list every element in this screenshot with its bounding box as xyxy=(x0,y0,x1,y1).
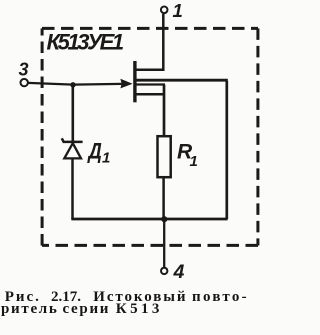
dashed IC boundary xyxy=(42,28,258,245)
wire diode anode down xyxy=(71,158,74,219)
terminal 1 xyxy=(161,7,168,14)
transistor VT1 drain stub xyxy=(136,68,164,71)
wire pin1 to drain xyxy=(136,14,163,70)
wire gate input xyxy=(28,83,122,85)
bottom rail wire xyxy=(71,218,227,221)
diode Д1 triangle xyxy=(64,143,81,158)
wire diode branch xyxy=(72,85,75,142)
transistor VT1 source stub lower xyxy=(136,93,164,96)
transistor VT1 source lead upper xyxy=(136,83,165,85)
terminal 3 xyxy=(21,79,28,86)
resistor R1 body xyxy=(158,136,171,177)
wire R1 to bottom rail xyxy=(162,177,165,219)
wire terminal 4 xyxy=(163,219,165,267)
terminal 4 xyxy=(161,268,167,274)
junction node bottom rail xyxy=(161,216,167,222)
wire substrate to bottom rail xyxy=(225,81,228,219)
label Д1 xyxy=(87,139,102,164)
wire source to R1 xyxy=(163,85,166,136)
diode Д1 cathode bar xyxy=(62,138,83,142)
transistor VT1 gate arrow xyxy=(120,79,132,89)
transistor VT1 channel bar xyxy=(133,61,136,102)
junction node gate/diode xyxy=(70,82,75,87)
transistor VT1 substrate lead xyxy=(136,79,228,82)
